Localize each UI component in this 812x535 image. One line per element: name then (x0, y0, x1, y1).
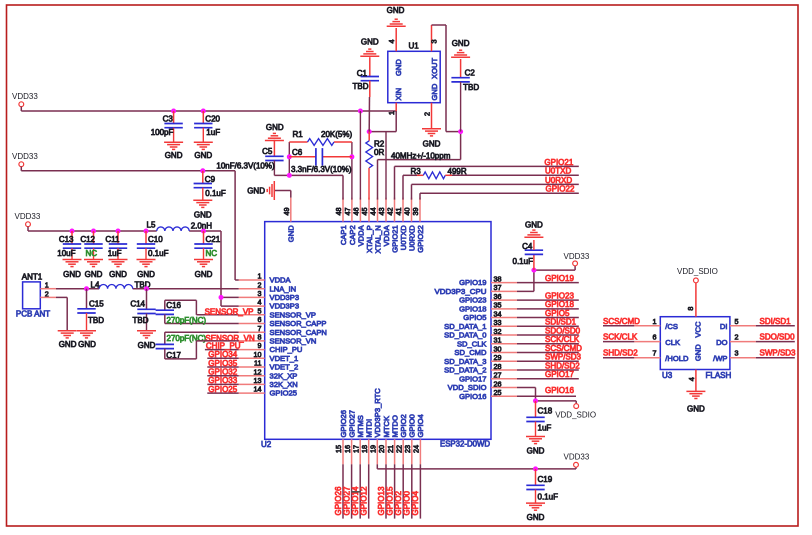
wire SHD/SD2 (603, 357, 634, 359)
VDD_SDIO C18 port circle (574, 404, 579, 409)
svg-text:32K_XN: 32K_XN (270, 380, 298, 389)
svg-text:24: 24 (412, 445, 421, 453)
wire GPIO16 pin 25 (517, 395, 576, 397)
wire VDDA rail pin 46 (359, 111, 361, 200)
wire CAP2 rail x=351.9 (351, 142, 353, 200)
svg-text:VDET_2: VDET_2 (270, 363, 299, 372)
svg-text:100pF: 100pF (151, 128, 174, 137)
svg-text:8: 8 (258, 333, 262, 342)
svg-text:GPIO35: GPIO35 (208, 359, 237, 368)
ground above C5 (265, 133, 284, 140)
svg-text:GPIO19: GPIO19 (459, 278, 486, 287)
capacitor C20 (202, 111, 204, 123)
svg-text:32K_XP: 32K_XP (270, 371, 298, 380)
svg-text:27: 27 (494, 371, 502, 380)
wire GPIO21 pin 42 (395, 166, 579, 199)
antenna ANT1 body (23, 282, 41, 309)
svg-text:NC: NC (85, 249, 97, 258)
svg-text:U0TXD: U0TXD (545, 167, 571, 176)
svg-text:GND: GND (195, 270, 213, 279)
svg-text:CHIP_PU: CHIP_PU (270, 345, 303, 354)
ground below C10 (137, 260, 156, 267)
svg-text:SWP/SD3: SWP/SD3 (545, 353, 582, 362)
node junction C14 (144, 286, 149, 291)
svg-text:26: 26 (494, 379, 502, 388)
ground below C9 (193, 200, 212, 207)
wire GPIO19 pin 38 (517, 282, 579, 284)
U2 pin 39 GPIO22 stub (419, 198, 421, 222)
U2 pin 41 U0TXD stub (402, 198, 404, 222)
ANT1 pin 2 stub (40, 296, 56, 298)
svg-text:LNA_IN: LNA_IN (270, 284, 297, 293)
svg-text:1: 1 (258, 272, 262, 281)
C5 lower lead (273, 161, 275, 176)
C21 lower lead (203, 248, 205, 259)
wire GPIO4 pin 24 drop (419, 464, 421, 518)
wire SDI/SD1 (756, 325, 795, 327)
capacitor C10 (145, 231, 147, 244)
svg-text:GPIO4: GPIO4 (411, 490, 420, 515)
svg-text:SENSOR_CAPP: SENSOR_CAPP (270, 319, 327, 328)
wire SWP/SD3 pin 29 (517, 360, 579, 362)
wire CHIP_PU pin9 (205, 349, 239, 351)
svg-text:9: 9 (258, 341, 262, 350)
capacitor C17 (156, 344, 174, 348)
svg-text:GND: GND (430, 83, 439, 100)
svg-text:12: 12 (254, 367, 262, 376)
svg-text:GND: GND (387, 6, 405, 15)
resistor R1 (289, 141, 352, 143)
capacitor C19 (535, 469, 537, 485)
svg-text:4: 4 (687, 377, 696, 381)
wire GPIO33 pin13 (207, 383, 238, 385)
U3 pin 2 DO stub (730, 341, 756, 343)
ANT1 pin 1 stub (40, 288, 56, 290)
svg-text:VDD3P3_CPU: VDD3P3_CPU (435, 287, 487, 296)
svg-text:GND: GND (138, 341, 156, 350)
svg-text:L4: L4 (91, 280, 100, 289)
svg-text:3.3nF/6.3V(10%): 3.3nF/6.3V(10%) (291, 165, 352, 174)
ground below C19 (526, 503, 545, 510)
wire GPIO2 pin 22 drop (402, 464, 404, 518)
svg-text:CAP1: CAP1 (339, 225, 348, 245)
svg-text:C11: C11 (105, 235, 120, 244)
U2 pin 48 CAP1 stub (342, 198, 344, 222)
svg-text:SD_DATA_0: SD_DATA_0 (444, 331, 486, 340)
svg-text:38: 38 (494, 274, 502, 283)
C2 lower lead (460, 82, 462, 132)
svg-text:C10: C10 (148, 235, 163, 244)
svg-text:39: 39 (411, 208, 420, 216)
node junction C19 (533, 466, 538, 471)
svg-text:ANT1: ANT1 (22, 273, 43, 282)
svg-text:CLK: CLK (665, 338, 680, 347)
ground ANT1 pin2 (58, 331, 77, 338)
wire GPIO0 pin 23 drop (411, 464, 413, 518)
svg-text:SD_CMD: SD_CMD (454, 348, 487, 357)
node junction C10 (144, 229, 149, 234)
U2 pin 26 VDD_SDIO stub (491, 386, 517, 388)
svg-text:SDO/SD0: SDO/SD0 (760, 333, 796, 342)
U2 pin 40 U0RXD stub (411, 198, 413, 222)
R2 lower lead to XTAL_P pin 45 (368, 168, 370, 200)
svg-text:SCK/CLK: SCK/CLK (603, 333, 638, 342)
svg-text:34: 34 (494, 309, 502, 318)
U3 pin 7 /HOLD stub (634, 357, 660, 359)
U3 pin 1 /CS stub (634, 325, 660, 327)
node junction C18 (533, 398, 538, 403)
U2 pin 14 GPIO25 stub (239, 392, 265, 394)
svg-text:GND: GND (194, 151, 212, 160)
U2 pin 23 GPIO0 stub (411, 439, 413, 464)
svg-text:GPIO18: GPIO18 (459, 304, 486, 313)
svg-text:11: 11 (254, 359, 261, 368)
svg-text:GPIO32: GPIO32 (208, 368, 237, 377)
wire GPIO34 pin10 (207, 357, 238, 359)
svg-text:SWP/SD3: SWP/SD3 (760, 349, 797, 358)
wire VDD_SDIO pin 26 to C18 node (517, 387, 576, 403)
svg-text:C3: C3 (163, 114, 174, 123)
svg-text:1uF: 1uF (206, 128, 220, 137)
svg-text:GPIO19: GPIO19 (545, 274, 574, 283)
svg-text:GPIO4: GPIO4 (416, 414, 425, 437)
wire GPIO15 pin 21 drop (394, 464, 396, 518)
wire GPIO18 pin 35 (517, 308, 579, 310)
ground sideways at pin 49 (267, 181, 274, 200)
svg-text:/CS: /CS (665, 322, 678, 331)
U2 pin 5 SENSOR_VP stub (239, 314, 265, 316)
wire ANT1 pin2 to ground (56, 297, 67, 330)
svg-text:C20: C20 (205, 114, 220, 123)
ground below C3 (164, 142, 183, 149)
svg-text:32: 32 (494, 327, 502, 336)
svg-text:GPIO22: GPIO22 (416, 225, 425, 252)
svg-text:VDDA: VDDA (270, 276, 292, 285)
U3 pin 3 /WP stub (730, 357, 756, 359)
svg-text:3: 3 (735, 349, 739, 358)
wire SCS/CMD (603, 325, 634, 327)
U1 pin 4 stub (395, 28, 397, 51)
svg-text:VDD_SDIO: VDD_SDIO (448, 383, 487, 392)
VDD33 C19 port circle (574, 462, 579, 467)
svg-text:2: 2 (258, 280, 262, 289)
svg-text:DI: DI (720, 322, 728, 331)
node junction C4 (531, 268, 536, 273)
U2 pin 10 VDET_1 stub (239, 357, 265, 359)
node junction VDDA rail pin46 (358, 109, 363, 114)
svg-text:SCK/CLK: SCK/CLK (545, 335, 580, 344)
svg-text:VDD3P3_RTC: VDD3P3_RTC (373, 388, 382, 438)
U2 pin 13 32K_XN stub (239, 383, 265, 385)
svg-text:SENSOR_VN: SENSOR_VN (270, 337, 317, 346)
wire SENSOR_CAPN pin7 to C17 (165, 332, 239, 344)
C12 lower lead (93, 248, 95, 259)
svg-text:VDD_SDIO: VDD_SDIO (677, 267, 718, 276)
U3 pin 4 GND stub (695, 370, 697, 391)
svg-text:270pF(NC): 270pF(NC) (167, 334, 207, 343)
svg-text:SDI/SD1: SDI/SD1 (545, 318, 577, 327)
oscillator U1 body (388, 51, 440, 102)
U2 pin 3 VDD3P3 stub (239, 296, 265, 298)
capacitor C15 (86, 289, 88, 309)
svg-text:VDD33: VDD33 (15, 212, 41, 221)
U2 pin 36 GPIO23 stub (491, 299, 517, 301)
capacitor C14 (146, 289, 148, 309)
wire SHD/SD2 pin 28 (517, 369, 579, 371)
svg-text:0.1uF: 0.1uF (513, 257, 534, 266)
wire pin 49 to sideways ground (275, 191, 291, 198)
svg-text:GPIO16: GPIO16 (459, 392, 486, 401)
svg-text:36: 36 (494, 292, 502, 301)
svg-text:GPIO22: GPIO22 (546, 185, 575, 194)
svg-text:U0RXD: U0RXD (545, 176, 572, 185)
svg-text:10: 10 (254, 350, 262, 359)
ground below C13 (63, 260, 82, 267)
U2 pin 2 LNA_IN stub (239, 288, 265, 290)
U2 pin 11 VDET_2 stub (239, 366, 265, 368)
svg-text:L5: L5 (147, 221, 156, 230)
flash U3 body (660, 317, 730, 370)
node junction C12 (91, 229, 96, 234)
svg-text:48: 48 (334, 208, 343, 216)
node junction rail A / CAP1 line (287, 173, 292, 178)
svg-text:VDD_SDIO: VDD_SDIO (555, 411, 596, 420)
node junction rail B / C6 (349, 154, 354, 159)
C10 lower lead (145, 248, 147, 259)
svg-text:C1: C1 (357, 69, 368, 78)
U2 pin 20 MTCK stub (385, 439, 387, 464)
U1 pin 1 stub (395, 103, 397, 111)
svg-text:XOUT: XOUT (430, 58, 439, 79)
resistor R2 (368, 132, 370, 141)
U2 pin 44 XTAL_N stub (377, 198, 379, 222)
wire U0TXD pin 41 left of R3 (403, 175, 423, 199)
svg-text:SHD/SD2: SHD/SD2 (545, 361, 580, 370)
svg-text:SCS/CMD: SCS/CMD (603, 317, 640, 326)
ground above C1 (360, 49, 379, 56)
wire SDO/SD0 pin 32 (517, 334, 579, 336)
svg-text:FLASH: FLASH (706, 371, 732, 380)
capacitor C12 (93, 231, 95, 244)
C18 lower lead (535, 422, 537, 437)
wire SENSOR_VP pin5 to C16 (165, 300, 239, 315)
svg-text:SD_DATA_2: SD_DATA_2 (444, 366, 486, 375)
wire SCS/CMD pin 30 (517, 352, 579, 354)
svg-text:37: 37 (494, 283, 502, 292)
svg-text:SCS/CMD: SCS/CMD (545, 344, 582, 353)
wire VDD3P3_CPU pin 37 to C4 node (517, 266, 575, 292)
svg-text:C13: C13 (59, 235, 74, 244)
U2 pin 12 32K_XP stub (239, 375, 265, 377)
svg-text:VCC: VCC (694, 321, 703, 338)
C4 upper lead (533, 240, 535, 250)
power port VDD33 (row 3) (15, 212, 41, 221)
svg-text:CHIP_PU: CHIP_PU (206, 341, 241, 350)
C9 lower lead (202, 188, 204, 200)
svg-text:GPIO17: GPIO17 (545, 370, 574, 379)
U3 pin 5 DI stub (730, 325, 756, 327)
wire U0TXD right of R3 (445, 174, 579, 176)
node junction C3 (171, 109, 176, 114)
svg-text:DO: DO (716, 338, 727, 347)
svg-text:XIN: XIN (394, 88, 403, 101)
svg-text:TBD: TBD (133, 316, 149, 325)
svg-text:GND: GND (527, 513, 545, 522)
power port VDD33 (row 2) (12, 152, 38, 161)
svg-text:SHD/SD2: SHD/SD2 (603, 349, 638, 358)
svg-text:SD_CLK: SD_CLK (457, 339, 487, 348)
C15 lower lead (86, 313, 88, 330)
svg-text:31: 31 (494, 336, 502, 345)
svg-text:10uF: 10uF (57, 249, 75, 258)
node junction C21 (201, 229, 206, 234)
capacitor C2 (460, 59, 462, 78)
U2 pin 17 MTMS stub (359, 439, 361, 464)
svg-text:GND: GND (287, 225, 296, 242)
wire VDD33 row 2 to pin 1 VDDA (21, 167, 238, 280)
svg-text:GND: GND (394, 59, 403, 76)
wire rail A x=289.3 (288, 142, 290, 175)
wire GPIO27 pin 16 drop (351, 464, 353, 518)
svg-text:13: 13 (254, 376, 262, 385)
svg-text:6: 6 (653, 333, 657, 342)
ground below C21 (194, 260, 213, 267)
svg-text:3: 3 (430, 40, 439, 44)
svg-text:SENSOR_VP: SENSOR_VP (205, 307, 254, 316)
wire U0RXD pin 40 (412, 184, 579, 199)
svg-text:SDI/SD1: SDI/SD1 (760, 317, 792, 326)
capacitor C6 (289, 156, 352, 158)
U2 pin 15 GPIO26 stub (342, 439, 344, 464)
U2 pin 1 VDDA stub (239, 279, 265, 281)
svg-text:GPIO25: GPIO25 (208, 385, 237, 394)
svg-text:U1: U1 (409, 42, 420, 51)
C19 lower lead (535, 490, 537, 503)
wire CAP1 line y=175.4 (274, 175, 343, 199)
wire GPIO22 pin 39 (420, 193, 579, 199)
svg-text:8: 8 (686, 307, 695, 311)
svg-text:C14: C14 (130, 299, 145, 308)
svg-text:1uF: 1uF (538, 424, 552, 433)
svg-text:SENSOR_CAPN: SENSOR_CAPN (270, 328, 327, 337)
U2 pin 38 GPIO19 stub (491, 282, 517, 284)
U2 pin 30 SD_CMD stub (491, 352, 517, 354)
U1 pin 2 stub (431, 103, 433, 129)
power port VDD33 (row 1) (12, 92, 38, 101)
node junction rail A / C6 (287, 154, 292, 159)
capacitor C1 (369, 57, 371, 76)
U3 pin 8 VCC stub (695, 283, 697, 317)
U2 pin 35 GPIO18 stub (491, 308, 517, 310)
svg-text:GPIO21: GPIO21 (544, 158, 573, 167)
wire SWP/SD3 (756, 357, 795, 359)
U2 pin 43 VDDA stub (385, 198, 387, 222)
svg-text:49: 49 (282, 208, 291, 216)
svg-text:7: 7 (258, 324, 262, 333)
VDD_SDIO U3 port circle (694, 278, 699, 283)
svg-text:VDD3P3: VDD3P3 (270, 293, 300, 302)
U2 pin 42 GPIO21 stub (394, 198, 396, 222)
capacitor C4 (533, 254, 535, 270)
U2 pin 34 GPIO5 stub (491, 317, 517, 319)
svg-text:U2: U2 (261, 440, 272, 449)
svg-text:GND: GND (361, 38, 379, 47)
svg-text:C21: C21 (206, 235, 221, 244)
svg-text:0R: 0R (374, 148, 384, 157)
U2 pin 18 MTDI stub (368, 439, 370, 464)
svg-text:C18: C18 (538, 407, 553, 416)
op-amp U2 ESP32-D0WD body (265, 222, 491, 440)
svg-text:VDD33: VDD33 (564, 252, 590, 261)
svg-text:R3: R3 (411, 167, 422, 176)
svg-text:C6: C6 (292, 148, 303, 157)
wire GPIO23 pin 36 (517, 299, 579, 301)
svg-text:/HOLD: /HOLD (665, 354, 689, 363)
svg-text:R1: R1 (293, 130, 304, 139)
VDD33 C4 port circle (573, 261, 578, 266)
capacitor C5 (273, 140, 275, 156)
wire GPIO32 pin12 (207, 375, 238, 377)
svg-text:2: 2 (735, 333, 739, 342)
U2 pin 6 SENSOR_CAPP stub (239, 323, 265, 325)
ground above C2 (451, 50, 470, 57)
svg-text:VDET_1: VDET_1 (270, 354, 299, 363)
U2 pin 16 GPIO27 stub (351, 439, 353, 464)
svg-text:0.1uF: 0.1uF (205, 189, 226, 198)
wire SCK/CLK (603, 341, 634, 343)
svg-text:VDD33: VDD33 (564, 453, 590, 462)
svg-text:GND: GND (247, 186, 265, 195)
svg-text:ESP32-D0WD: ESP32-D0WD (440, 440, 490, 449)
inductor L4 (99, 285, 133, 289)
svg-text:GND: GND (63, 270, 81, 279)
capacitor C16 (156, 310, 174, 314)
svg-text:GND: GND (423, 140, 441, 149)
U2 pin 9 CHIP_PU stub (239, 349, 265, 351)
svg-text:TBD: TBD (88, 316, 104, 325)
wire GPIO35 pin11 (207, 366, 238, 368)
VDD33 row1 port circle (19, 102, 24, 107)
VDD33 row3 port circle (26, 222, 31, 227)
ground below U1 pin2 (422, 129, 441, 136)
node junction C15 (84, 286, 89, 291)
svg-text:0.1uF: 0.1uF (148, 249, 169, 258)
U2 pin 47 CAP2 stub (351, 198, 353, 222)
svg-text:GND: GND (109, 270, 127, 279)
ground below C15 (77, 331, 96, 338)
capacitor C13 (71, 231, 73, 244)
svg-text:GND: GND (527, 447, 545, 456)
U2 pin 8 SENSOR_VN stub (239, 340, 265, 342)
U1 pin 3 stub (431, 25, 433, 51)
strike mark near GPIO14 (351, 491, 360, 493)
svg-text:C9: C9 (205, 175, 216, 184)
svg-text:GND: GND (525, 220, 543, 229)
svg-text:20K(5%): 20K(5%) (321, 130, 352, 139)
svg-text:R2: R2 (374, 139, 385, 148)
U2 pin 28 SD_DATA_2 stub (491, 369, 517, 371)
svg-text:35: 35 (494, 301, 502, 310)
svg-text:40MHz+/-10ppm: 40MHz+/-10ppm (391, 151, 451, 160)
ground below C18 (526, 437, 545, 444)
U2 pin 21 MTDO stub (394, 439, 396, 464)
C13 lower lead (71, 248, 73, 259)
svg-text:33: 33 (494, 318, 502, 327)
svg-text:25: 25 (494, 388, 502, 397)
svg-text:2.0nH: 2.0nH (191, 222, 213, 231)
capacitor C18 (535, 401, 537, 417)
node junction C13 (70, 229, 75, 234)
